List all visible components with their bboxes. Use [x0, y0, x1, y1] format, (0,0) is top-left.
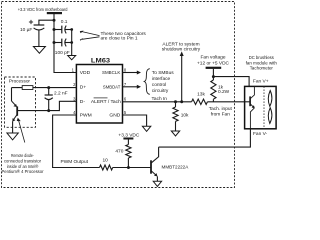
- op-amp U1 LM63 body: [76, 57, 122, 123]
- wire SMBDAT arrow pin 7: [123, 85, 142, 89]
- svg-text:Pentium® 4 Processor: Pentium® 4 Processor: [2, 168, 44, 175]
- power rail bar fan: [206, 67, 222, 69]
- svg-text:Processor: Processor: [9, 78, 30, 84]
- wire to C1: [39, 20, 54, 25]
- svg-text:Fan V+: Fan V+: [253, 79, 269, 85]
- svg-text:Tachometer: Tachometer: [250, 66, 274, 72]
- svg-text:from Fan: from Fan: [211, 112, 231, 118]
- svg-text:10k: 10k: [181, 113, 189, 119]
- wire SMBCLK arrow pin 8: [123, 71, 142, 75]
- svg-text:10: 10: [103, 157, 109, 163]
- capacitor 2.2 nF: [45, 88, 68, 111]
- annotation tach input: [209, 106, 233, 118]
- processor dashed box: [5, 77, 36, 127]
- transistor Q1 remote diode: [12, 88, 18, 133]
- svg-text:connected transistor: connected transistor: [4, 158, 41, 164]
- node ALERT junction: [180, 100, 183, 103]
- annotation PWM Output: [61, 159, 89, 165]
- ground C1: [33, 47, 45, 54]
- wire Tach line: [123, 101, 192, 103]
- annotation capacitors note: [80, 31, 147, 42]
- wire D-: [17, 101, 76, 110]
- wire ALERT up: [180, 51, 184, 101]
- capacitor C2 0.1: [54, 19, 72, 34]
- brace SMBus: [144, 69, 150, 95]
- ground 10k: [171, 131, 179, 136]
- +3.3 VDC pullup label: [118, 133, 139, 139]
- annotation SMBus text: [152, 70, 174, 94]
- node Tach In label: [152, 96, 168, 102]
- svg-text:fan module with: fan module with: [246, 60, 277, 66]
- wire VDD rail: [54, 13, 76, 72]
- ground Q2: [153, 181, 161, 186]
- svg-text:100 pF: 100 pF: [55, 50, 70, 56]
- fan blades: [268, 91, 272, 124]
- ground GND pin: [142, 126, 150, 131]
- resistor 10k: [173, 102, 189, 131]
- svg-text:are close to Pin 1: are close to Pin 1: [101, 36, 138, 42]
- svg-text:10 µF: 10 µF: [20, 27, 32, 33]
- svg-text:ALERT to system: ALERT to system: [162, 41, 199, 47]
- node rail junctions: [53, 19, 56, 44]
- svg-text:0.1: 0.1: [61, 19, 68, 25]
- wire Fan V+: [213, 77, 249, 87]
- pin numbers: [72, 68, 127, 115]
- resistor 470: [115, 139, 131, 168]
- fan module box: [245, 86, 277, 128]
- node 10k junction: [174, 100, 177, 103]
- resistor 13k: [192, 91, 245, 104]
- wire GND pin 5: [123, 115, 147, 126]
- transistor Q3 fan: [245, 86, 255, 128]
- ground Q1: [7, 133, 18, 140]
- power rail bar pullup: [123, 138, 133, 140]
- svg-text:PWM: PWM: [80, 113, 92, 119]
- fan module divider: [263, 86, 265, 128]
- node D- junction: [47, 109, 50, 112]
- ground bypass caps: [68, 56, 76, 60]
- svg-text:MMBT2222A: MMBT2222A: [162, 165, 190, 171]
- wire caps to ground: [70, 28, 73, 55]
- annotation fan module: [246, 55, 277, 72]
- Fan voltage label: [197, 55, 230, 67]
- +3.3 VDC supply label: [18, 7, 68, 13]
- svg-text:DC brushless: DC brushless: [249, 55, 275, 61]
- svg-text:Fan V-: Fan V-: [253, 131, 268, 137]
- capacitor C1 10uF: [20, 20, 44, 47]
- svg-text:SMBCLK: SMBCLK: [102, 70, 121, 76]
- node Fan V- label: [253, 131, 268, 137]
- motherboard dashed outline: [2, 2, 235, 188]
- svg-text:interface: interface: [152, 76, 171, 82]
- resistor 1k 0.2W: [211, 80, 230, 102]
- svg-text:D+: D+: [80, 84, 87, 90]
- capacitor C3 100 pF: [54, 39, 72, 56]
- svg-text:Tach In: Tach In: [152, 96, 168, 102]
- svg-text:PWM Output: PWM Output: [61, 159, 89, 165]
- annotation ALERT text: [162, 41, 201, 52]
- svg-text:circuitry: circuitry: [152, 88, 169, 94]
- svg-text:ALERT / Tach: ALERT / Tach: [91, 99, 121, 105]
- power rail bar: [47, 12, 62, 14]
- wire to Q2 base: [113, 167, 151, 169]
- svg-text:GND: GND: [109, 113, 120, 119]
- svg-text:inside of an Intel®: inside of an Intel®: [7, 163, 39, 170]
- annotation pointer to Q1: [2, 118, 44, 176]
- wire PWM: [53, 115, 100, 168]
- node D+ junction: [47, 86, 50, 89]
- svg-text:D-: D-: [80, 99, 86, 105]
- svg-text:470: 470: [115, 148, 123, 154]
- wire fan voltage: [212, 69, 214, 80]
- svg-text:shutdown circuitry: shutdown circuitry: [162, 47, 201, 53]
- svg-text:+12 or +5 VDC: +12 or +5 VDC: [197, 61, 230, 67]
- svg-text:LM63: LM63: [91, 57, 111, 64]
- transistor Q2 MMBT2222A: [151, 147, 189, 181]
- svg-text:2.2 nF: 2.2 nF: [54, 90, 68, 96]
- svg-text:0.2W: 0.2W: [218, 89, 230, 95]
- resistor 10: [100, 157, 113, 170]
- svg-text:VDD: VDD: [80, 70, 91, 76]
- wire D+: [12, 87, 77, 89]
- node V+ junction: [212, 75, 215, 78]
- resistor in processor: [22, 86, 33, 90]
- node Fan V+ label: [253, 79, 269, 85]
- wire Fan V- return: [159, 129, 251, 147]
- svg-text:Tach. input: Tach. input: [209, 106, 233, 112]
- svg-text:13k: 13k: [197, 91, 205, 97]
- svg-text:control: control: [152, 82, 166, 88]
- svg-text:Remote diode-: Remote diode-: [11, 153, 34, 159]
- svg-text:To SMBus: To SMBus: [152, 70, 174, 76]
- svg-text:Fan voltage: Fan voltage: [200, 55, 225, 61]
- svg-text:SMBDAT: SMBDAT: [103, 84, 120, 90]
- node pullup junction: [127, 166, 130, 169]
